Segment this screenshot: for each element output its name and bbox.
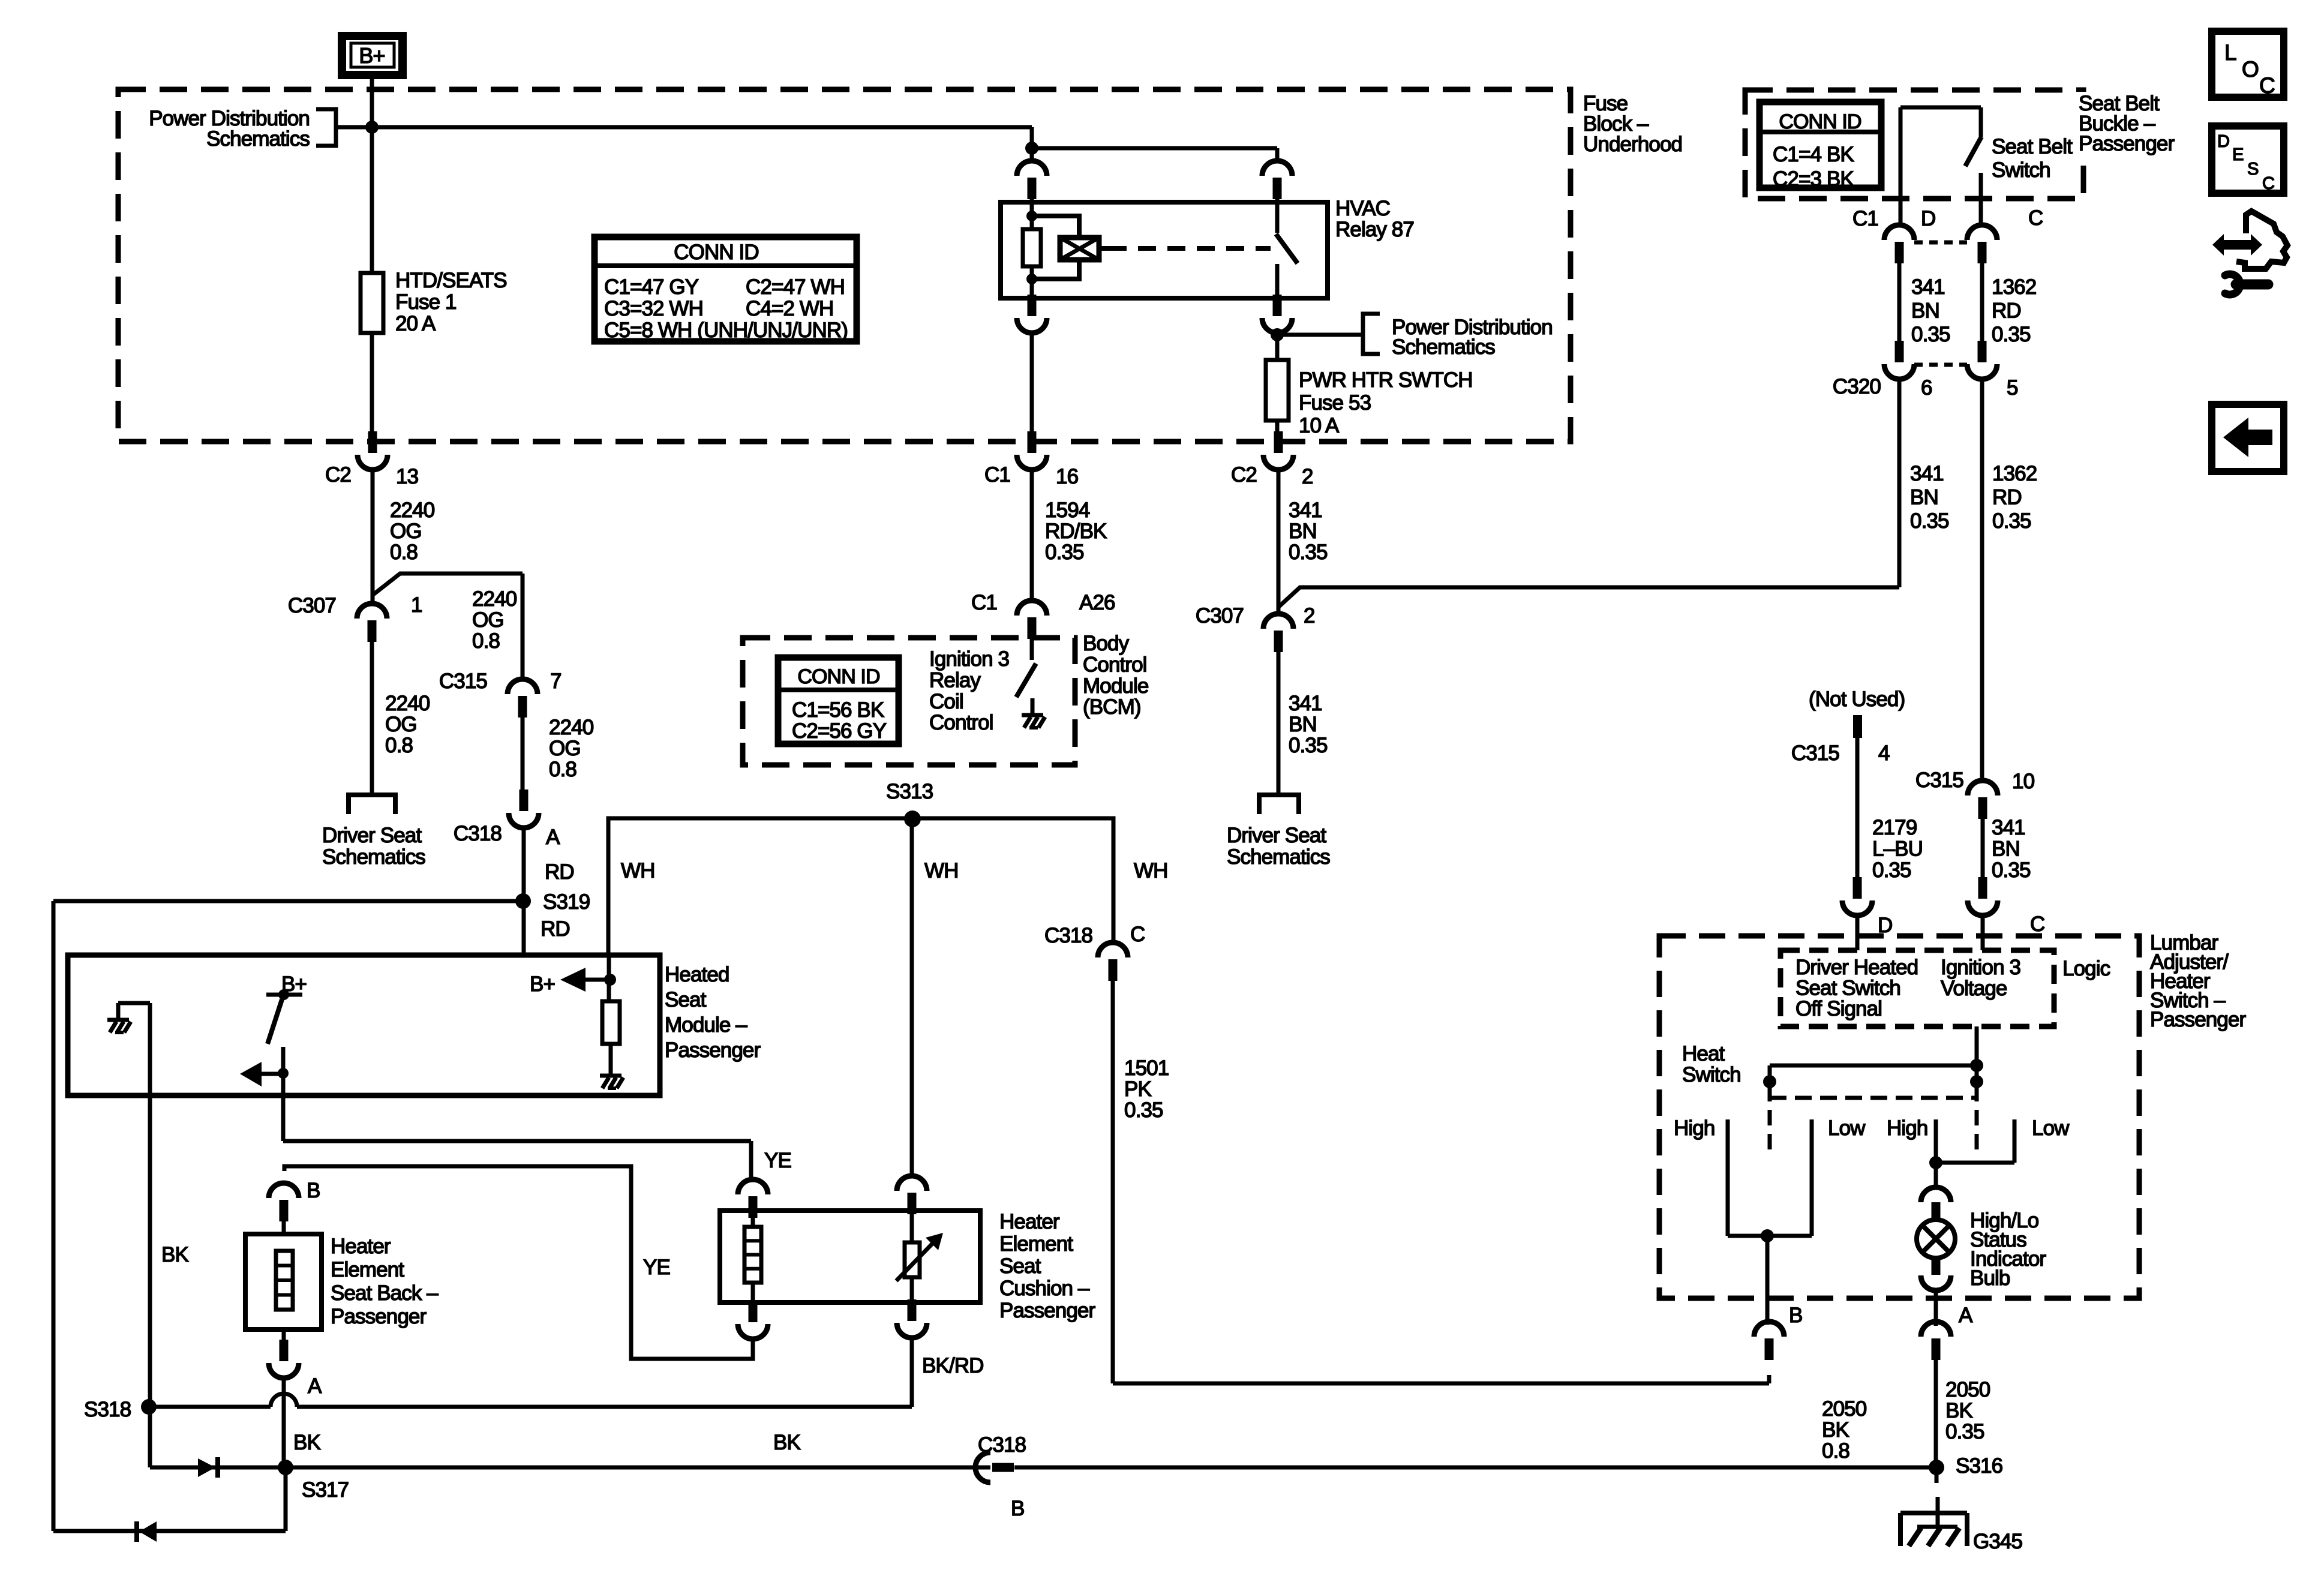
- svg-text:C1=47 GY: C1=47 GY: [604, 275, 699, 299]
- svg-text:1: 1: [411, 593, 422, 617]
- svg-text:YE: YE: [643, 1256, 670, 1279]
- svg-text:20 A: 20 A: [395, 312, 436, 335]
- svg-text:Schematics: Schematics: [322, 845, 425, 869]
- svg-text:(BCM): (BCM): [1083, 695, 1141, 719]
- svg-text:A: A: [1959, 1304, 1973, 1327]
- svg-text:C3=32 WH: C3=32 WH: [604, 297, 703, 320]
- svg-text:HVAC: HVAC: [1335, 197, 1390, 220]
- svg-text:CONN ID: CONN ID: [674, 241, 758, 264]
- svg-text:D: D: [2217, 132, 2229, 151]
- svg-text:Ignition 3: Ignition 3: [929, 647, 1009, 671]
- svg-text:16: 16: [1056, 465, 1078, 488]
- svg-text:C1: C1: [971, 591, 997, 614]
- svg-text:High: High: [1674, 1116, 1715, 1140]
- svg-text:BK: BK: [773, 1431, 800, 1454]
- svg-text:C2: C2: [1231, 463, 1257, 487]
- svg-text:2240: 2240: [472, 587, 517, 611]
- svg-text:C307: C307: [288, 594, 336, 617]
- svg-text:2240: 2240: [549, 716, 594, 739]
- svg-text:Passenger: Passenger: [665, 1038, 761, 1062]
- svg-text:OG: OG: [385, 713, 417, 736]
- svg-text:S: S: [2247, 160, 2259, 179]
- svg-text:BN: BN: [1910, 486, 1938, 509]
- svg-text:341: 341: [1289, 499, 1322, 522]
- svg-text:C1: C1: [984, 463, 1010, 487]
- svg-text:L–BU: L–BU: [1872, 837, 1923, 861]
- svg-text:Heater: Heater: [331, 1235, 391, 1258]
- svg-text:0.35: 0.35: [1289, 734, 1328, 757]
- svg-text:Logic: Logic: [2062, 957, 2110, 980]
- svg-text:Element: Element: [999, 1232, 1073, 1256]
- svg-text:BN: BN: [1911, 299, 1939, 323]
- svg-text:0.35: 0.35: [1045, 541, 1084, 564]
- svg-text:C315: C315: [439, 670, 487, 693]
- svg-text:C307: C307: [1196, 604, 1244, 628]
- svg-text:Low: Low: [1828, 1116, 1866, 1140]
- svg-text:10: 10: [2012, 770, 2035, 793]
- svg-text:0.35: 0.35: [1872, 858, 1911, 882]
- svg-text:G345: G345: [1973, 1530, 2022, 1553]
- svg-text:C4=2 WH: C4=2 WH: [746, 297, 833, 320]
- svg-text:Element: Element: [331, 1258, 404, 1281]
- svg-text:6: 6: [1921, 376, 1932, 400]
- svg-text:HTD/SEATS: HTD/SEATS: [395, 269, 507, 292]
- svg-text:Passenger: Passenger: [999, 1299, 1095, 1322]
- svg-text:1362: 1362: [1992, 275, 2036, 299]
- svg-text:BK: BK: [1945, 1399, 1972, 1422]
- svg-text:WH: WH: [1134, 859, 1168, 882]
- svg-text:C2=3 BK: C2=3 BK: [1773, 167, 1854, 191]
- svg-text:YE: YE: [764, 1149, 791, 1172]
- svg-text:CONN ID: CONN ID: [797, 665, 879, 688]
- svg-text:0.35: 0.35: [1124, 1098, 1163, 1122]
- svg-text:C2: C2: [325, 463, 351, 487]
- svg-text:5: 5: [2007, 376, 2018, 400]
- svg-text:0.35: 0.35: [1992, 323, 2031, 346]
- svg-text:0.8: 0.8: [390, 541, 418, 564]
- svg-text:C1: C1: [1852, 207, 1878, 230]
- svg-text:E: E: [2232, 145, 2244, 164]
- svg-text:Voltage: Voltage: [1941, 977, 2007, 1000]
- svg-text:L: L: [2224, 40, 2236, 65]
- svg-text:Schematics: Schematics: [206, 127, 310, 151]
- svg-text:Module: Module: [1083, 674, 1148, 698]
- svg-text:High: High: [1887, 1116, 1927, 1140]
- svg-text:B: B: [1789, 1304, 1802, 1327]
- svg-text:0.35: 0.35: [1911, 323, 1950, 346]
- svg-text:S313: S313: [886, 780, 933, 803]
- svg-text:341: 341: [1910, 462, 1944, 485]
- svg-text:Driver Heated: Driver Heated: [1795, 956, 1918, 979]
- svg-text:RD: RD: [1992, 299, 2021, 323]
- svg-text:Cushion –: Cushion –: [999, 1277, 1090, 1300]
- svg-text:A: A: [546, 825, 560, 849]
- svg-text:WH: WH: [924, 859, 959, 882]
- svg-text:4: 4: [1878, 742, 1890, 765]
- svg-text:B+: B+: [359, 43, 385, 68]
- svg-text:BN: BN: [1289, 520, 1317, 543]
- svg-text:Passenger: Passenger: [2150, 1008, 2246, 1031]
- svg-text:BN: BN: [1289, 713, 1317, 736]
- svg-text:Heated: Heated: [665, 963, 729, 986]
- svg-text:0.35: 0.35: [1992, 858, 2031, 882]
- svg-text:1362: 1362: [1992, 462, 2037, 485]
- svg-text:C315: C315: [1915, 769, 1963, 792]
- svg-text:341: 341: [1911, 275, 1945, 299]
- svg-text:S319: S319: [543, 890, 590, 914]
- svg-text:C318: C318: [1044, 924, 1092, 947]
- svg-text:Seat Switch: Seat Switch: [1795, 977, 1900, 1000]
- svg-text:O: O: [2242, 57, 2259, 82]
- svg-text:Seat Back –: Seat Back –: [331, 1281, 439, 1305]
- svg-text:C5=8 WH (UNH/UNJ/UNR): C5=8 WH (UNH/UNJ/UNR): [604, 319, 848, 342]
- svg-text:A: A: [308, 1374, 322, 1398]
- svg-text:C2=56 GY: C2=56 GY: [792, 719, 887, 743]
- svg-text:2050: 2050: [1945, 1378, 1990, 1401]
- svg-text:OG: OG: [549, 737, 581, 760]
- svg-text:0.35: 0.35: [1910, 509, 1949, 533]
- svg-text:Passenger: Passenger: [331, 1305, 427, 1328]
- svg-text:Passenger: Passenger: [2079, 132, 2175, 155]
- svg-text:S316: S316: [1956, 1454, 2002, 1478]
- svg-text:Driver Seat: Driver Seat: [1227, 824, 1326, 847]
- svg-text:Off Signal: Off Signal: [1795, 997, 1882, 1020]
- svg-text:Seat Belt: Seat Belt: [1992, 135, 2073, 158]
- svg-text:B: B: [307, 1179, 320, 1202]
- svg-text:2: 2: [1302, 465, 1313, 488]
- svg-text:Relay: Relay: [929, 668, 981, 692]
- svg-text:S318: S318: [84, 1398, 131, 1421]
- svg-text:BK: BK: [161, 1243, 188, 1266]
- svg-text:13: 13: [396, 465, 418, 488]
- svg-text:B+: B+: [530, 972, 555, 996]
- svg-text:A26: A26: [1079, 591, 1115, 614]
- svg-text:Driver Seat: Driver Seat: [322, 824, 422, 847]
- svg-text:RD: RD: [541, 917, 570, 941]
- svg-text:S317: S317: [302, 1478, 349, 1502]
- svg-text:2050: 2050: [1822, 1397, 1867, 1421]
- svg-text:341: 341: [1992, 816, 2025, 839]
- svg-text:BK: BK: [1822, 1418, 1849, 1442]
- svg-text:2240: 2240: [385, 692, 430, 715]
- svg-text:2: 2: [1304, 604, 1315, 628]
- svg-text:Schematics: Schematics: [1392, 335, 1495, 359]
- svg-text:RD/BK: RD/BK: [1045, 520, 1107, 543]
- svg-text:0.8: 0.8: [385, 734, 413, 757]
- svg-text:2240: 2240: [390, 499, 435, 522]
- svg-text:C: C: [2030, 912, 2044, 936]
- svg-text:Fuse 1: Fuse 1: [395, 290, 457, 314]
- svg-text:Fuse 53: Fuse 53: [1299, 391, 1371, 415]
- svg-text:0.35: 0.35: [1992, 509, 2031, 533]
- svg-text:Underhood: Underhood: [1583, 133, 1682, 156]
- svg-text:Seat: Seat: [665, 988, 707, 1011]
- svg-text:0.8: 0.8: [1822, 1439, 1849, 1463]
- svg-text:OG: OG: [472, 608, 504, 632]
- svg-text:Schematics: Schematics: [1227, 845, 1330, 869]
- svg-text:Switch: Switch: [1682, 1063, 1741, 1086]
- svg-text:7: 7: [550, 670, 562, 693]
- svg-text:RD: RD: [1992, 486, 2022, 509]
- svg-text:WH: WH: [621, 859, 655, 882]
- svg-text:C1=4 BK: C1=4 BK: [1773, 143, 1854, 166]
- svg-text:Low: Low: [2032, 1116, 2070, 1140]
- svg-text:0.8: 0.8: [549, 758, 577, 781]
- svg-text:PK: PK: [1124, 1077, 1151, 1101]
- svg-text:Switch: Switch: [1992, 158, 2050, 182]
- svg-text:Module –: Module –: [665, 1013, 747, 1037]
- svg-text:341: 341: [1289, 692, 1322, 715]
- svg-text:OG: OG: [390, 520, 422, 543]
- svg-text:BK/RD: BK/RD: [922, 1354, 983, 1377]
- svg-text:0.35: 0.35: [1289, 541, 1328, 564]
- svg-text:Heat: Heat: [1682, 1042, 1725, 1065]
- svg-text:C320: C320: [1833, 375, 1881, 398]
- svg-text:CONN ID: CONN ID: [1779, 110, 1861, 133]
- svg-text:Control: Control: [929, 711, 993, 734]
- svg-text:C: C: [2259, 73, 2275, 98]
- svg-text:Seat: Seat: [999, 1254, 1041, 1278]
- svg-text:BK: BK: [293, 1431, 320, 1454]
- svg-text:1594: 1594: [1045, 499, 1090, 522]
- svg-text:C: C: [1130, 923, 1145, 946]
- svg-text:C318: C318: [454, 822, 502, 845]
- svg-text:C315: C315: [1791, 742, 1839, 765]
- svg-text:Heater: Heater: [999, 1210, 1060, 1233]
- svg-text:Coil: Coil: [929, 690, 963, 713]
- svg-text:2179: 2179: [1872, 816, 1917, 839]
- svg-text:(Not Used): (Not Used): [1809, 688, 1905, 711]
- svg-text:Control: Control: [1083, 653, 1147, 676]
- svg-text:Ignition 3: Ignition 3: [1941, 956, 2020, 979]
- svg-text:B: B: [1011, 1497, 1024, 1520]
- svg-text:D: D: [1921, 207, 1935, 230]
- svg-text:C318: C318: [978, 1433, 1026, 1457]
- svg-text:C1=56 BK: C1=56 BK: [792, 698, 884, 722]
- svg-text:PWR HTR SWTCH: PWR HTR SWTCH: [1299, 368, 1473, 392]
- svg-text:C: C: [2262, 174, 2274, 193]
- svg-text:0.35: 0.35: [1945, 1420, 1984, 1443]
- svg-text:C2=47 WH: C2=47 WH: [746, 275, 845, 299]
- svg-text:10 A: 10 A: [1299, 414, 1340, 437]
- svg-text:0.8: 0.8: [472, 629, 500, 653]
- svg-text:Relay 87: Relay 87: [1335, 218, 1414, 241]
- svg-text:BN: BN: [1992, 837, 2020, 861]
- svg-text:RD: RD: [545, 860, 574, 884]
- svg-text:C: C: [2028, 206, 2043, 230]
- svg-text:D: D: [1878, 914, 1892, 937]
- svg-text:Body: Body: [1083, 632, 1130, 655]
- svg-text:1501: 1501: [1124, 1056, 1169, 1080]
- svg-text:Bulb: Bulb: [1970, 1266, 2010, 1290]
